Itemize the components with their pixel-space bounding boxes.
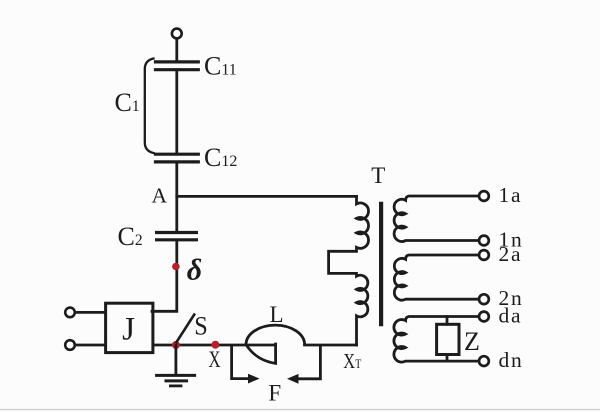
svg-text:δ: δ xyxy=(187,254,202,287)
svg-text:X: X xyxy=(209,347,221,373)
svg-text:C12: C12 xyxy=(204,143,237,172)
secondary winding 2 xyxy=(394,255,479,300)
svg-text:XT: XT xyxy=(343,349,361,373)
svg-text:C1: C1 xyxy=(115,88,140,117)
wire C12 to A xyxy=(175,164,178,232)
terminal input 1 xyxy=(65,308,75,318)
terminal 1a xyxy=(479,191,489,201)
terminal input 2 xyxy=(65,340,75,350)
capacitor C12 xyxy=(156,154,199,162)
node X dot xyxy=(211,341,219,349)
wire C2 to J box xyxy=(152,241,177,311)
terminal HV top xyxy=(172,29,182,39)
svg-text:Z: Z xyxy=(464,327,480,356)
junction dot at switch xyxy=(172,341,180,349)
capacitor C11 xyxy=(156,62,199,70)
terminal da xyxy=(479,312,489,322)
svg-text:C2: C2 xyxy=(118,222,143,251)
wire L to XT xyxy=(305,344,357,347)
F bracket left with arrow xyxy=(232,346,249,378)
secondary winding 1 xyxy=(394,196,479,241)
ground xyxy=(157,345,195,386)
switch S xyxy=(177,315,195,342)
svg-text:S: S xyxy=(194,311,208,340)
burden Z box xyxy=(437,324,459,354)
svg-text:J: J xyxy=(122,312,135,348)
svg-text:C11: C11 xyxy=(204,51,237,80)
F bracket right with arrow xyxy=(299,346,321,378)
svg-text:T: T xyxy=(371,163,385,188)
wire terminal2 to J xyxy=(75,344,106,347)
wire terminal1 to J xyxy=(75,311,106,314)
faint page edge bottom xyxy=(0,409,600,411)
svg-text:L: L xyxy=(269,302,283,327)
svg-text:da: da xyxy=(499,304,523,328)
transformer core xyxy=(379,204,383,324)
terminal 2a xyxy=(479,250,489,260)
capacitor C2 xyxy=(157,233,197,240)
svg-text:dn: dn xyxy=(499,348,524,372)
svg-text:1a: 1a xyxy=(499,183,523,207)
transformer primary winding xyxy=(329,196,369,345)
box J xyxy=(106,303,153,352)
wire Z bottom xyxy=(446,355,449,362)
svg-text:F: F xyxy=(268,380,281,405)
wire top terminal to C11 xyxy=(175,39,178,61)
bracket C1 xyxy=(145,59,154,154)
wire main J to L xyxy=(153,344,276,347)
terminal 2n xyxy=(479,294,489,304)
node delta dot xyxy=(172,263,180,271)
terminal 1n xyxy=(479,236,489,246)
svg-text:A: A xyxy=(151,184,167,208)
terminal dn xyxy=(479,356,489,366)
secondary winding 3 xyxy=(394,317,479,363)
wire C11 to C12 xyxy=(175,71,178,152)
svg-text:2a: 2a xyxy=(499,242,523,266)
wire Z top xyxy=(446,317,449,325)
inductor L fin xyxy=(246,344,275,363)
inductor L dome xyxy=(246,325,305,345)
wire A to transformer primary xyxy=(177,195,357,198)
